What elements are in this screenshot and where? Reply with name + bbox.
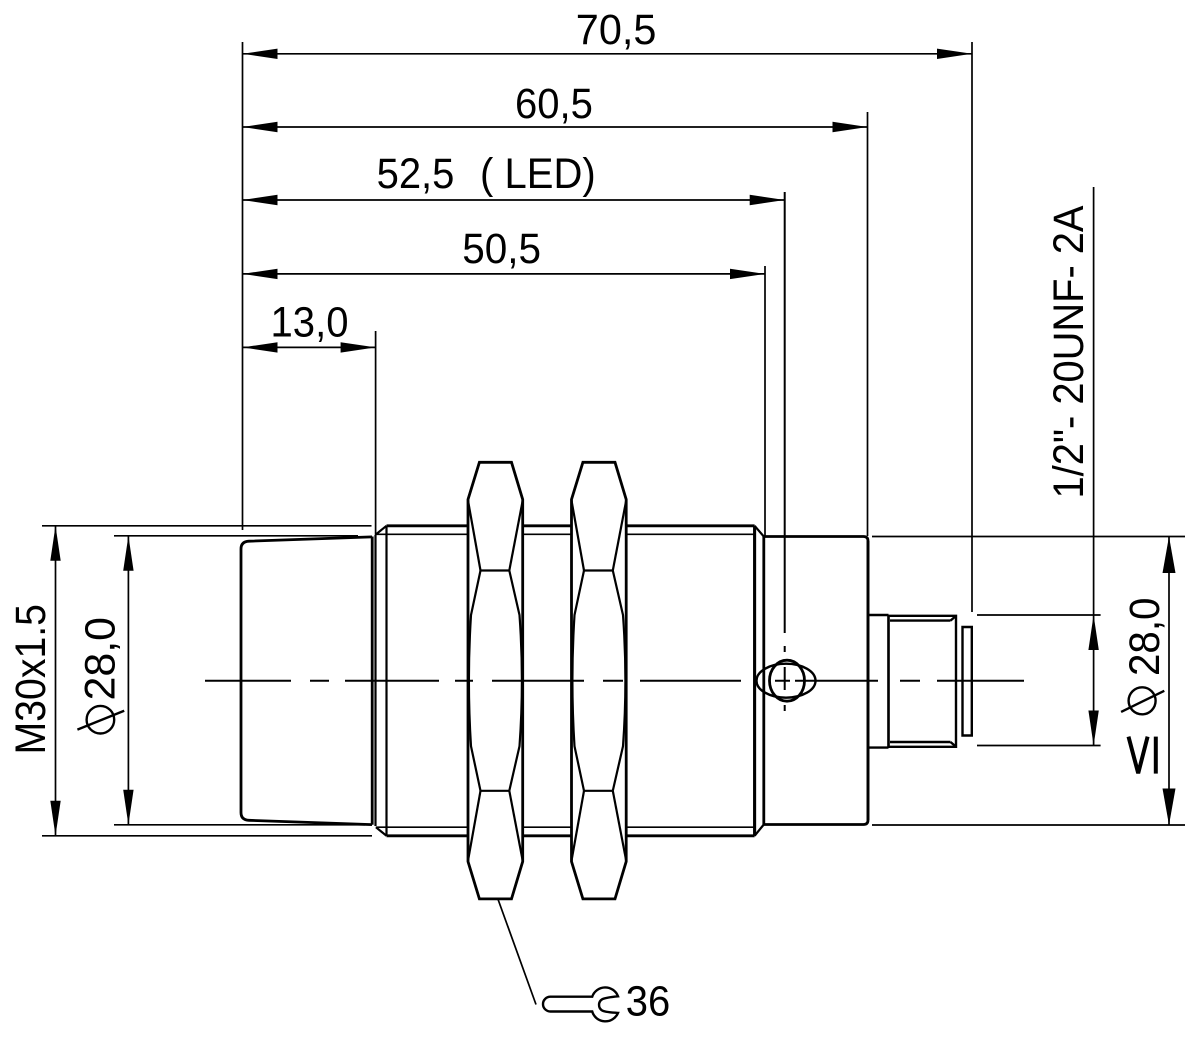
dimension M30x1.5 vertical line: [55, 526, 57, 836]
connector thread body: [889, 616, 957, 747]
extension line 50,5 right: [764, 266, 766, 536]
extension line left (sensor face): [242, 42, 244, 530]
dimension dia 28,0 left vertical line: [127, 536, 129, 825]
connector base: [868, 615, 889, 748]
svg-text:28,0: 28,0: [1121, 598, 1169, 677]
LED window ellipse: [757, 664, 816, 698]
extension line 52,5 (LED centerline): [784, 192, 786, 711]
dimension 50,5 line: [243, 273, 766, 275]
svg-text:36: 36: [626, 978, 671, 1026]
extension lines connector: [977, 615, 1101, 746]
dimension 70,5 line: [243, 53, 973, 55]
extension line 13,0 right: [375, 331, 377, 535]
svg-text:70,5: 70,5: [576, 6, 657, 54]
thread root lines: [376, 534, 755, 827]
extension lines dia 28 right: [872, 537, 1185, 826]
svg-text:28,0: 28,0: [77, 617, 125, 701]
dimension 60,5 line: [243, 126, 868, 128]
extension line 70,5 right: [971, 42, 973, 612]
arrowheads: [50, 49, 1175, 836]
LED circle: [770, 660, 805, 701]
svg-text:M30x1.5: M30x1.5: [7, 604, 55, 755]
svg-text:52,5: 52,5: [377, 150, 455, 198]
sensor cap (PTFE front sleeve): [241, 537, 372, 825]
dimension 13,0 line: [243, 346, 376, 348]
thread crest lines: [387, 526, 755, 836]
leader line to wrench: [493, 884, 537, 1005]
svg-text:60,5: 60,5: [515, 80, 593, 128]
main centerline: [205, 680, 1024, 682]
wrench icon: [543, 987, 618, 1021]
extension lines M30: [42, 526, 372, 836]
dimension dia 28,0 right vertical line: [1168, 537, 1170, 826]
housing front edge: [762, 537, 765, 825]
thread start chamfer: [376, 526, 387, 836]
hex nut 2: [572, 462, 627, 899]
housing outline: [764, 537, 868, 825]
cap end second line: [374, 535, 376, 826]
svg-text:13,0: 13,0: [271, 299, 349, 347]
dimension connector vertical line with label underline: [1093, 187, 1095, 746]
svg-text:50,5: 50,5: [462, 225, 541, 273]
extension lines dia 28 left: [114, 536, 365, 825]
svg-text:1/2"- 20UNF- 2A: 1/2"- 20UNF- 2A: [1045, 205, 1093, 498]
hex nut 1: [468, 462, 523, 899]
housing chamfer: [755, 526, 764, 836]
connector tip: [963, 627, 972, 736]
dimension 52,5 (LED) line: [243, 199, 785, 201]
phi symbol left: [77, 706, 124, 734]
phi symbol right: [1121, 687, 1164, 714]
less-or-equal symbol: [1129, 737, 1156, 774]
thread end face: [753, 526, 756, 836]
extension line 60,5 right: [867, 112, 869, 536]
svg-text:( LED): ( LED): [480, 150, 596, 198]
